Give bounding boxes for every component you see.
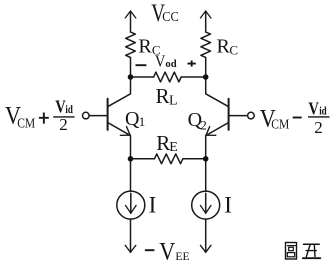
svg-text:V: V — [159, 239, 175, 266]
svg-text:L: L — [169, 93, 178, 108]
svg-text:Q: Q — [125, 108, 140, 130]
svg-text:2: 2 — [59, 115, 68, 134]
svg-text:2: 2 — [200, 118, 207, 133]
svg-text:C: C — [229, 42, 238, 57]
svg-text:CM: CM — [271, 117, 289, 132]
svg-text:R: R — [156, 84, 170, 108]
svg-text:id: id — [65, 102, 73, 116]
svg-text:R: R — [156, 131, 170, 155]
svg-text:1: 1 — [139, 114, 146, 129]
svg-text:I: I — [224, 193, 232, 218]
svg-text:od: od — [165, 58, 176, 70]
svg-text:id: id — [319, 104, 327, 118]
svg-text:CC: CC — [162, 10, 179, 25]
svg-text:V: V — [55, 96, 65, 116]
svg-text:R: R — [138, 36, 152, 58]
svg-text:V: V — [155, 52, 166, 71]
svg-text:CM: CM — [17, 117, 35, 132]
svg-text:I: I — [149, 193, 157, 218]
svg-text:2: 2 — [314, 118, 323, 137]
svg-text:E: E — [169, 140, 178, 155]
svg-text:EE: EE — [175, 249, 189, 263]
svg-text:R: R — [217, 36, 231, 58]
svg-text:V: V — [308, 98, 319, 118]
